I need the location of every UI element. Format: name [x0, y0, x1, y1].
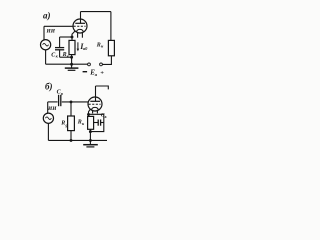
cathode arc V2	[91, 107, 98, 110]
heater leg V1 left	[77, 32, 79, 38]
AC source G2 (b)	[43, 113, 53, 123]
anode lead V2	[95, 86, 97, 101]
resistor Rn	[108, 40, 114, 55]
wire Rn bottom to terminal	[102, 56, 111, 65]
wire Rk node to rail (b)	[89, 132, 91, 141]
svg-text:б): б)	[45, 82, 53, 92]
wire top rail b (right of Cp)	[62, 101, 89, 103]
wire node to cap top	[60, 36, 72, 38]
cathode lead V1	[72, 31, 75, 37]
ground (b)	[89, 140, 91, 144]
triode V1 (a) envelope	[73, 19, 87, 33]
junction Rg bottom	[70, 139, 73, 142]
heater leg V1 right	[81, 32, 83, 38]
label -Ea+	[83, 71, 88, 73]
terminal left (-)	[88, 63, 91, 66]
svg-text:р: р	[60, 91, 63, 96]
terminal right (+)	[100, 63, 103, 66]
node cathode top (a)	[71, 36, 74, 39]
svg-text:+: +	[100, 70, 104, 77]
ground (a)	[71, 64, 73, 67]
grid V1 (dashed)	[74, 25, 86, 27]
svg-text:ИИ: ИИ	[47, 106, 57, 112]
wire grid top rail a	[44, 25, 73, 27]
anode plate V1	[75, 22, 85, 24]
arrow Ia0	[77, 42, 79, 49]
node Rg top	[70, 100, 73, 103]
triode V2 (b) envelope	[88, 97, 102, 111]
wire anode top rail b with hook	[96, 86, 109, 89]
wire source top drop a	[43, 26, 45, 39]
junction rail-ground a	[70, 63, 73, 66]
svg-text:а): а)	[43, 10, 51, 20]
heater leg V2 left	[92, 110, 94, 114]
wire source bottom drop b	[47, 123, 49, 140]
heater leg V2 right	[96, 110, 98, 114]
resistor Rk (b)	[88, 114, 90, 116]
junction Rk bottom (b)	[89, 130, 92, 133]
wire source top drop b	[47, 102, 49, 113]
capacitor Cp	[58, 95, 60, 106]
AC source G1 (a)	[41, 40, 51, 50]
capacitor Ck (a)	[59, 37, 61, 47]
svg-text:ИИ: ИИ	[46, 29, 56, 35]
junction rail (b)	[89, 139, 92, 142]
anode lead V1	[80, 12, 82, 24]
grid V2 (dashed)	[89, 103, 101, 105]
cathode arc V1	[76, 29, 83, 32]
resistor Rg	[70, 102, 72, 116]
anode plate V2	[90, 100, 100, 102]
capacitor Ck (b)	[94, 122, 98, 124]
cathode lead V2	[89, 109, 91, 115]
wire top rail b (left of Cp)	[48, 101, 58, 103]
svg-text:к: к	[105, 115, 107, 119]
wire bottom rail a	[46, 63, 88, 65]
wire bottom rail b	[48, 139, 107, 141]
wire bypass loop (b)	[89, 114, 104, 131]
node cathode (b)	[87, 113, 90, 116]
wire drop to Rn	[110, 12, 112, 41]
wire source bottom drop a	[45, 50, 47, 64]
svg-text:g: g	[65, 122, 68, 127]
junction cap-res bottom (a)	[70, 56, 73, 59]
wire anode top rail a	[81, 11, 111, 13]
resistor Rk (a)	[71, 37, 73, 40]
